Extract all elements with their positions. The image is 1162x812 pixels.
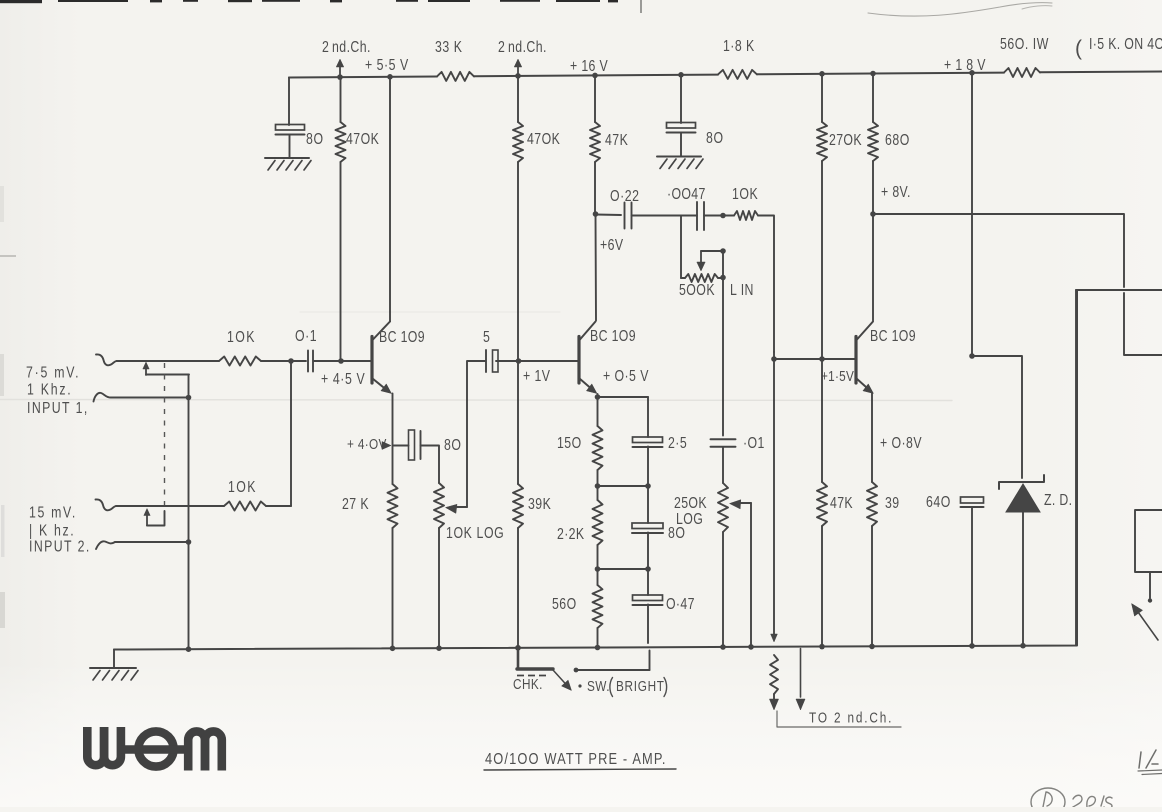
svg-text:+ 1 8 V: + 1 8 V [944,56,986,74]
junction dot rail x873 [870,71,876,77]
svg-text:·O1: ·O1 [743,434,765,452]
svg-text:I·5 K. ON 4O: I·5 K. ON 4O [1089,35,1162,53]
label +18V [944,56,986,74]
label 10K LOG [446,524,504,542]
underline TO 2nd ch [777,711,901,727]
resistor 10K (tone) [734,211,774,352]
svg-text:+ 16 V: + 16 V [570,57,608,75]
svg-text:56O: 56O [552,595,577,613]
capacitor 0.47 [633,595,663,605]
pot 10K LOG wiper arrow [446,504,468,513]
wire bright branch top [647,397,649,437]
junction dot rail x872 [869,644,875,650]
capacitor 2.5 [633,437,663,447]
junction dot rail x1023 [1020,643,1026,649]
label 270K [829,131,862,149]
wire mid to C80 [647,486,649,523]
label 33 K [435,38,463,56]
resistor 1.8K (series in rail) [718,70,757,79]
junction dot rail x518c [515,645,521,651]
wire 640 to rail [971,507,973,646]
junction dot rail x972 [969,70,975,76]
svg-text:SW.: SW. [587,678,610,695]
junction dot +8V node [870,211,876,217]
input 2 jack tip [96,499,117,510]
capacitor 5 (coupling) [486,350,498,372]
wire low to C0.47 [647,569,649,595]
label 39K [528,495,551,513]
resistor 560. 1W (series in rail) [1004,68,1040,77]
wire right lower branch [1124,293,1162,355]
junction dot rail x439 [436,645,442,651]
WEM logo [87,727,222,771]
wire mix node down [290,361,292,506]
resistor 39K (Q2 base lower) [513,361,523,648]
capacitor .0047 [697,202,704,230]
svg-text:56O. IW: 56O. IW [1000,35,1049,53]
wire 2.5 to mid [647,447,649,487]
junction dot rail x822b [819,644,825,650]
scan artifact: fold line [0,312,952,401]
svg-text:39: 39 [885,494,900,512]
wire rail to C80 (2nd) [680,75,682,123]
capacitor C 80 (1st, rail decoupling) [276,125,305,135]
junction dot input1 ring [186,395,192,401]
resistor 150 [593,426,603,486]
label +6V [600,236,624,254]
svg-text:+1·5V: +1·5V [821,368,854,385]
capacitor .01 [711,439,736,447]
svg-text:27OK: 27OK [829,131,862,149]
potentiometer 10K LOG body [434,483,444,648]
junction dot mix node [288,358,294,364]
label 10K (tone) [732,185,758,203]
pot 250K wiper arrow [730,500,752,509]
svg-text:15O: 15O [557,434,582,452]
label 80 (Q1 bypass) [444,436,461,454]
label 10K (input2) [228,478,257,496]
svg-text:+ 8V.: + 8V. [881,183,911,201]
svg-text:8O: 8O [444,436,461,454]
svg-text:33 K: 33 K [435,38,463,56]
label 2 nd.Ch. (1st) [322,38,371,56]
label 470K (2nd) [527,130,560,148]
label 560 [552,595,577,613]
svg-text:INPUT 2.: INPUT 2. [29,537,91,555]
label 47K (2nd) [830,494,853,512]
handwritten D 2015 [1031,788,1112,812]
ganged switch link (dash-dot) [164,363,166,510]
partial box at right edge [1135,510,1162,603]
junction dot rail x597 [595,645,601,651]
label LOG (250K) [676,510,703,528]
wire zener branch [972,356,1022,478]
svg-text:+ 5·5 V: + 5·5 V [365,56,409,74]
capacitor 0.22 [625,203,632,229]
junction dot rail x392 [390,646,396,652]
label +1.5V [821,368,854,385]
svg-text:68O: 68O [885,131,910,149]
label 0.47 [666,595,695,613]
junction dot rail x681 [678,72,684,78]
label +8V. [881,183,911,201]
resistor 47K (Q3 base lower) [817,359,827,647]
label 680 [885,131,910,149]
resistor 27K (Q1 emitter) [388,484,398,528]
wire input2 tip [116,505,224,507]
switch CHK [517,648,572,691]
svg-text:L IN: L IN [730,281,754,299]
resistor 33K (series in rail) [437,72,474,81]
label CHK. [513,676,543,693]
svg-text:BC 1O9: BC 1O9 [590,327,636,345]
label 80 (ladder) [668,524,685,542]
wire Q2 emitter vertical [597,394,599,426]
svg-text:15 mV.: 15 mV. [29,503,77,521]
resistor 680 (Q3 collector load) [868,74,878,214]
capacitor 0.1 [308,351,313,372]
label +5.5V [365,56,409,74]
junction dot ladder low-right [645,566,651,572]
input 2 sleeve jack [96,541,189,549]
svg-text:+ O·8V: + O·8V [880,434,922,452]
jack 2 switch contact arrow [144,509,165,526]
label 15 mV. [29,503,77,521]
svg-text:nd.Ch.: nd.Ch. [332,38,371,56]
junction dot rail x518 [515,73,521,79]
svg-text:LOG: LOG [676,510,703,528]
wire input1 tip [117,360,220,362]
svg-text:7·5 mV.: 7·5 mV. [26,363,80,381]
transistor Q3 BC109 [856,322,874,394]
label 47K (collector) [605,131,628,149]
svg-text:8O: 8O [706,129,724,147]
junction dot rail x822 [819,71,825,77]
wire C80 to low [647,533,649,570]
junction dot 500K right [720,275,726,281]
svg-text:5: 5 [483,328,491,346]
jack 1 switch contact arrow [143,362,189,375]
label 5 (cap) [483,328,491,346]
label 27 K [342,495,369,513]
wire C80 to ground (1st) [289,135,291,159]
svg-text:1OK LOG: 1OK LOG [446,524,504,542]
label 10K (input1) [227,328,256,346]
wire C0.1 to Q1 base [314,360,371,362]
wire C0.22 to junction [632,215,698,217]
scan artifact: left edge marks [0,186,16,628]
wire C5 to Q2 base [496,360,578,362]
label 1.8K [723,37,755,55]
label 1 Khz. (input1) [27,380,72,398]
label BC 109 (Q2) [590,327,636,345]
svg-text:BC 1O9: BC 1O9 [379,328,425,346]
wire right mid vertical [1075,290,1077,646]
label +1V [523,367,551,385]
label INPUT 1, [27,399,89,417]
wire +V top rail [289,72,1162,78]
label 7.5 mV. [26,363,80,381]
label 80 (1st) [306,130,324,148]
resistor to 2nd ch (below rail) [769,655,778,710]
svg-text:O·22: O·22 [610,187,639,205]
wire 640/zener column upper [971,73,973,356]
resistor 470K (1st) [336,77,346,361]
junction dot Q3 base-left [771,356,777,362]
capacitor C 80 (2nd, rail decoupling) [667,123,696,133]
wire ladder mid [598,485,649,487]
handwritten 1/- mark [1138,750,1162,775]
wire +8V line [873,214,1124,287]
label +4.5V [321,370,365,388]
wire node to C0.1 [291,360,306,362]
input 1 ring jack [94,393,189,402]
resistor 270K [817,74,827,359]
svg-text:(: ( [1075,37,1082,60]
svg-text:BC 1O9: BC 1O9 [870,327,916,345]
junction dot 640/zener node [969,353,975,359]
junction dot Q2 collector node [593,211,599,217]
scan artifact: top edge strip [0,0,642,13]
svg-text:1OK: 1OK [732,185,758,203]
label 0.22 [610,187,639,205]
wire .0047 to 10K [704,215,734,217]
junction dot rail x723 [720,644,726,650]
label BC 109 (Q3) [870,327,916,345]
label INPUT 2. [29,537,91,555]
label 640 [926,493,951,511]
wire 2nd-ch feed down [771,352,778,642]
junction dot rail x340 [337,74,343,80]
svg-text:INPUT 1,: INPUT 1, [27,399,89,417]
potentiometer 500K LIN body [681,274,723,282]
wire 10K to node [261,360,291,362]
junction dot ladder mid-left [595,483,601,489]
title 40/100 WATT PRE-AMP. [484,751,676,770]
label 80 (2nd) [706,129,724,147]
wire Q3 emitter vertical [871,394,873,647]
svg-text:O·47: O·47 [666,595,695,613]
wire Q1 collector vertical [389,77,391,321]
scan artifact: top right curve [868,3,1052,16]
wire collector node to C0.22 [596,214,622,217]
resistor 470K (2nd) [513,76,523,361]
junction dot rail x390 [387,74,393,80]
wire C80 to ground (2nd) [680,133,682,157]
label 0.1 [295,327,317,345]
svg-text:CHK.: CHK. [513,676,543,693]
capacitor 80 (feedback ladder) [632,523,663,533]
switch SW BRIGHT contact [574,668,650,673]
junction dot ladder mid-right [645,483,651,489]
svg-text:2·5: 2·5 [668,434,687,452]
arrow into right edge [1132,604,1159,641]
svg-text:nd.Ch.: nd.Ch. [508,38,547,56]
wire Q2 emitter node right [598,396,649,398]
wire ground stub left [113,650,115,669]
svg-text:27 K: 27 K [342,495,369,513]
svg-text:5OOK: 5OOK [679,281,715,299]
svg-text:1OK: 1OK [227,328,256,346]
wire rail left end down to C 80 (1st) [288,78,290,126]
svg-text:2·2K: 2·2K [557,525,585,543]
wire Q2 collector vertical [595,214,598,321]
svg-text:Z. D.: Z. D. [1044,491,1072,509]
svg-text:+ O·5 V: + O·5 V [603,367,649,385]
svg-text:8O: 8O [306,130,324,148]
label 150 [557,434,582,452]
label +0.8V [880,434,922,452]
wire 500K node down to .01 [722,251,724,436]
junction dot rail x972b [969,643,975,649]
junction dot rail x751 [748,644,754,650]
junction dot Q2 base bias [516,358,522,364]
svg-text:47OK: 47OK [346,130,379,148]
node/net 2nd.Ch. feed (1st) arrow [336,59,344,78]
wire 10K#2 to mix node [266,505,291,507]
svg-text:4O/1OO WATT PRE - AMP.: 4O/1OO WATT PRE - AMP. [485,751,667,769]
resistor 10K (input1 series) [219,357,261,366]
label Z.D. [1044,491,1072,509]
svg-text:+ 1V: + 1V [523,367,551,385]
wire drop to 500K left [680,216,682,279]
ground (top left) [265,158,311,170]
arrow to 2nd ch [796,649,805,711]
label 500K [679,281,715,299]
svg-text:+ 4·OV: + 4·OV [347,436,387,453]
wire Q1 emitter vertical [392,394,394,649]
wire C80 to volume pot [421,446,440,484]
resistor 10K (input2 series) [224,502,266,511]
wire 250K wiper down [750,503,752,647]
svg-text:39K: 39K [528,495,551,513]
junction dot Q2 emitter [595,394,601,400]
junction dot input2 sleeve [186,539,192,545]
label +4.0V with arrow [347,436,391,453]
label 1 K hz. [29,521,75,539]
junction dot Q3 base-bias [819,356,825,362]
svg-text:1 Khz.: 1 Khz. [27,380,72,398]
label 470K (1st) [346,130,379,148]
wire Q3 collector vertical [872,214,874,321]
svg-text:TO 2 nd.Ch.: TO 2 nd.Ch. [809,709,893,726]
label 250K [674,494,707,512]
label +0.5V [603,367,649,385]
node/net 2nd.Ch. feed (2nd) arrow [514,59,522,78]
label .0047 [667,185,706,203]
resistor 47K (Q2 collector load) [590,75,600,213]
label TO 2 nd.Ch. [809,709,893,726]
svg-text:64O: 64O [926,493,951,511]
label LIN [730,281,754,299]
wire ground rail [114,290,1077,650]
capacitor 640 [961,497,984,507]
wire ladder low [598,568,649,570]
svg-text:+6V: +6V [600,236,624,254]
junction dot ladder low-left [595,566,601,572]
resistor 39 (Q3 emitter) [867,482,877,526]
ground (bottom left) [90,668,138,680]
svg-text:47K: 47K [605,131,628,149]
svg-text:BRIGHT: BRIGHT [616,678,665,695]
transistor Q2 BC109 [579,322,597,394]
svg-text:1OK: 1OK [228,478,257,496]
resistor 2.2K [593,486,603,569]
label 2 nd.Ch. (2nd) [498,38,547,56]
wire C0.47 to bright switch [648,605,650,671]
resistor 560 (Q2 emitter) [593,569,603,648]
label 39 [885,494,900,512]
svg-text:2: 2 [498,38,505,56]
potentiometer 250K LOG body [718,483,728,647]
pot 500K wiper [697,248,726,271]
svg-text:1·8 K: 1·8 K [723,37,755,55]
wire Q3 base wire [774,358,855,360]
ground (top middle) [657,157,703,169]
label BC 109 (Q1) [379,328,425,346]
label SW.(BRIGHT) [578,678,666,697]
label +16 V [570,57,608,75]
zener diode Z.D. [999,475,1044,646]
label 2.5 [668,434,687,452]
input 1 jack tip [96,354,117,365]
junction dot Q1 base bias [338,358,344,364]
svg-text:2: 2 [322,38,329,56]
label 2.2K [557,525,585,543]
svg-text:·OO47: ·OO47 [667,185,706,203]
svg-text:+ 4·5 V: + 4·5 V [321,370,365,388]
capacitor C 80 (Q1 bypass) [409,430,421,460]
label .01 [743,434,765,452]
junction dot rail x595 [592,73,598,79]
wire input ground bus vertical [188,375,190,650]
junction dot tone top [720,213,726,219]
junction dot rail x188 [186,646,192,652]
transistor Q1 BC109 [372,322,392,394]
wire .01 to 250K [722,447,724,483]
junction dot rail x518b [515,645,521,651]
svg-text:47OK: 47OK [527,130,560,148]
wire wiper to C5 [467,361,485,507]
wire emitter to C80 (3rd) [393,445,409,447]
svg-text:47K: 47K [830,494,853,512]
wire right mid horizontal [1076,289,1162,291]
label 560. 1W (1.5K. ON 40 [1000,35,1162,60]
svg-text:O·1: O·1 [295,327,317,345]
